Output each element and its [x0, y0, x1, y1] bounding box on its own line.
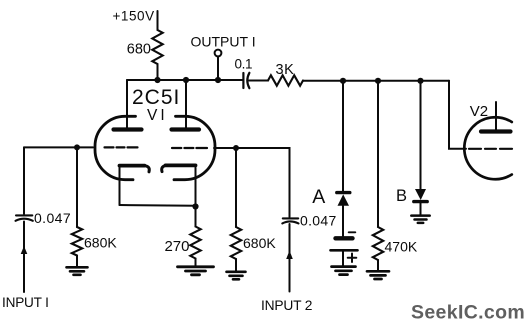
wire output tap [217, 57, 219, 80]
wire 680K no.1 upper lead [76, 147, 78, 227]
V1 right plate lead [185, 80, 187, 128]
resistor 470K [373, 227, 383, 260]
svg-text:0.047: 0.047 [300, 213, 337, 229]
V2 plate lead [495, 102, 497, 130]
svg-text:SeekIC.com: SeekIC.com [411, 302, 525, 324]
svg-text:0.047: 0.047 [34, 210, 71, 226]
wire drop to V2 grid [449, 81, 466, 149]
wire input1 vertical [23, 147, 25, 214]
svg-text:0.1: 0.1 [235, 57, 253, 72]
wire diode A upper lead [342, 81, 344, 191]
wire plate bus [127, 79, 243, 81]
svg-text:680: 680 [127, 42, 151, 58]
V1 left cathode hook [145, 166, 150, 172]
ground 680K no.1 [67, 267, 88, 275]
battery plus sign [348, 254, 357, 263]
wire 3K to V2 grid corner [303, 80, 449, 82]
V2 plate [481, 129, 511, 133]
svg-text:470K: 470K [385, 239, 418, 255]
svg-text:VI: VI [147, 107, 168, 124]
diode B triangle [415, 189, 426, 200]
diode A triangle [338, 194, 350, 205]
arrow input1 [21, 246, 28, 254]
V1 right grid (dashed) [172, 147, 207, 149]
ground diode B [411, 216, 429, 223]
V1 left plate [114, 127, 142, 131]
V1 left plate lead [126, 80, 128, 128]
wire input1 grid [24, 146, 93, 148]
wire 680 to plate bus [157, 64, 159, 80]
V1 right plate [172, 127, 200, 131]
ground 470K [367, 271, 389, 279]
svg-text:A: A [312, 186, 325, 208]
svg-text:2C5I: 2C5I [132, 86, 180, 109]
node plate-bus / right plate [183, 77, 189, 83]
wire 470K to ground [377, 260, 379, 271]
node bus / diode B [417, 78, 423, 84]
capacitor 0.047 no.2 top plate [283, 217, 298, 219]
wire input1 lower [23, 222, 25, 293]
wire +150V supply lead [157, 11, 159, 30]
node bus / diode A [340, 78, 346, 84]
node plate-bus / 680 [154, 77, 160, 83]
svg-text:V2: V2 [470, 103, 488, 120]
wire cap 0.1 to 3K [249, 80, 268, 82]
resistor 680 [152, 30, 162, 64]
svg-text:+150V: +150V [113, 9, 155, 24]
wire diode A to battery [342, 206, 344, 236]
svg-text:INPUT I: INPUT I [2, 295, 49, 310]
node cathode junction [192, 203, 198, 209]
wire input2 grid [214, 148, 290, 217]
wire diode B to ground [420, 203, 422, 215]
node grid1 / 680K [74, 144, 80, 150]
resistor 270 [190, 227, 200, 259]
diode A cathode bar [337, 191, 350, 194]
wire 680K no.2 to ground [235, 259, 237, 272]
svg-text:680K: 680K [243, 235, 276, 251]
svg-text:680K: 680K [84, 235, 117, 251]
svg-text:270: 270 [164, 238, 189, 255]
arrow input2 [286, 251, 293, 260]
ground 270 [178, 267, 214, 275]
resistor 3K [268, 75, 303, 85]
capacitor 0.047 no.1 bottom plate [16, 219, 33, 221]
wire right cathode down [195, 168, 197, 227]
capacitor 0.047 no.1 top plate [16, 214, 32, 216]
ground 680K no.2 [227, 272, 246, 280]
battery plus plate [331, 249, 358, 252]
wire 270 to ground [195, 259, 197, 267]
resistor 680K no.2 [231, 227, 241, 259]
wire left cathode down [119, 168, 121, 206]
wire cathode bottom [120, 204, 196, 207]
ground battery [332, 267, 356, 275]
diode B cathode bar [414, 200, 427, 203]
capacitor 0.047 no.2 bottom plate [282, 221, 298, 223]
capacitor 0.1 left plate [242, 73, 244, 88]
V1 right cathode hook [162, 165, 167, 171]
svg-text:OUTPUT I: OUTPUT I [191, 34, 256, 50]
wire 680K no.2 upper lead [235, 148, 237, 227]
svg-text:B: B [396, 187, 407, 205]
wire input2 lower [289, 224, 291, 292]
battery minus plate [336, 236, 353, 240]
tube V1 envelope [95, 116, 136, 179]
node grid2 / 680K [233, 145, 239, 151]
V1 left grid (dashed) [105, 146, 138, 148]
capacitor 0.1 right plate [247, 73, 249, 88]
wire battery to ground [342, 252, 344, 267]
V1 left cathode [120, 164, 145, 168]
wire diode B upper lead [420, 81, 422, 189]
terminal OUTPUT 1 [215, 50, 222, 57]
svg-text:INPUT 2: INPUT 2 [261, 298, 312, 313]
V1 right cathode [166, 163, 196, 167]
wire 680K no.1 to ground [76, 256, 78, 268]
tube V2 envelope [464, 117, 511, 179]
node bus / 470K [375, 78, 381, 84]
resistor 680K no.1 [72, 227, 82, 256]
V2 grid (dashed) [469, 148, 512, 150]
wire 470K upper lead [377, 81, 379, 227]
svg-text:3K: 3K [276, 62, 295, 78]
node plate-bus / output tap [215, 77, 221, 83]
battery minus sign [349, 231, 356, 233]
